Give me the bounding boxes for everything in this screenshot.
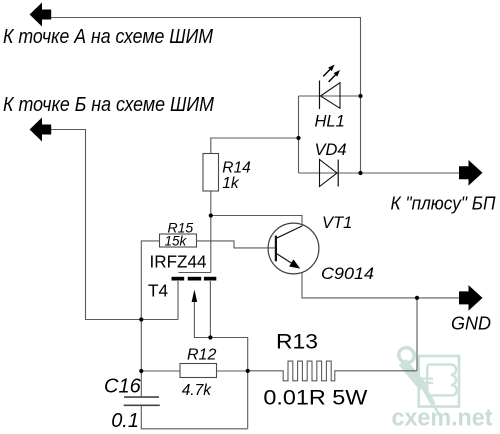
svg-text:15k: 15k xyxy=(165,234,188,249)
svg-text:К точке А на схеме ШИМ: К точке А на схеме ШИМ xyxy=(3,26,213,48)
svg-text:4.7k: 4.7k xyxy=(182,382,213,399)
svg-text:T4: T4 xyxy=(148,280,169,300)
svg-text:1k: 1k xyxy=(222,175,240,192)
svg-text:R13: R13 xyxy=(276,330,318,354)
svg-text:VT1: VT1 xyxy=(322,214,352,232)
svg-text:cxem.net: cxem.net xyxy=(392,405,493,432)
svg-text:HL1: HL1 xyxy=(315,113,345,131)
svg-text:0.01R 5W: 0.01R 5W xyxy=(263,386,368,410)
svg-text:R12: R12 xyxy=(187,347,216,364)
svg-text:GND: GND xyxy=(451,314,491,334)
svg-text:R14: R14 xyxy=(222,159,251,176)
svg-text:К точке Б на схеме ШИМ: К точке Б на схеме ШИМ xyxy=(3,94,214,116)
svg-text:0.1: 0.1 xyxy=(111,410,139,432)
svg-text:IRFZ44: IRFZ44 xyxy=(150,251,207,271)
svg-text:VD4: VD4 xyxy=(315,141,347,159)
svg-text:C9014: C9014 xyxy=(321,265,374,283)
svg-text:К "плюсу" БП: К "плюсу" БП xyxy=(391,194,497,214)
svg-text:C16: C16 xyxy=(104,376,142,398)
